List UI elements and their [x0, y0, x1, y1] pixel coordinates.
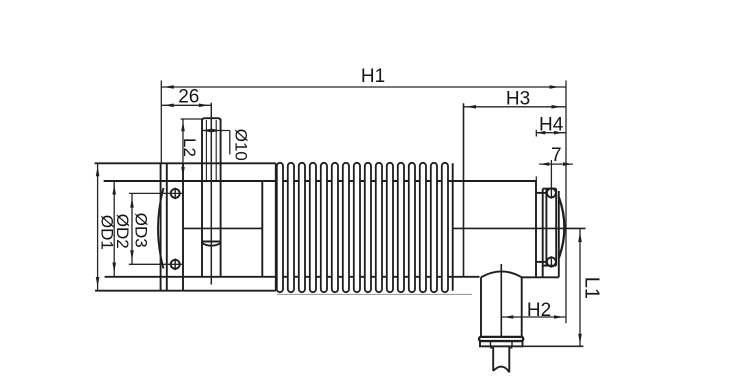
right cap inner rim line	[545, 189, 547, 266]
right body joint line / H3 left extension	[463, 103, 465, 277]
ØD3 arrows	[130, 198, 134, 208]
H1/7/H4/H2 shared right extension line	[565, 81, 567, 324]
left body step joint line	[261, 181, 263, 277]
7 left extension (screw plane)	[550, 160, 552, 189]
H2 dimension line	[501, 316, 566, 318]
gland nut upper ring	[479, 337, 523, 341]
cable tube centerline	[500, 264, 502, 337]
arrowheads	[96, 85, 582, 344]
flange inner rim line	[166, 163, 168, 290]
outer guard tube bottom silhouette / ØD1 bottom extension	[95, 290, 276, 292]
L2 top extension (stud top)	[181, 118, 203, 120]
bolt centerline / 26 right extension	[210, 103, 212, 285]
threaded stud left edge	[201, 119, 203, 277]
device centerline right segment / L1 top extension	[453, 227, 586, 229]
outer guard tube right end edge	[275, 163, 277, 290]
H3 arrows	[466, 105, 476, 109]
body D2 top line / ØD2 top extension	[104, 180, 536, 182]
flange right edge	[182, 163, 184, 290]
right body bottom line right of cable tube	[522, 276, 559, 278]
ØD2 arrows	[112, 185, 116, 195]
H3 dimension line	[464, 106, 567, 108]
svg-text:H3: H3	[506, 89, 530, 110]
H1 left extension (flange left edge extended up)	[160, 81, 162, 164]
cap screw stub upper	[536, 192, 547, 194]
H4 dimension line	[536, 132, 566, 134]
flange disc silhouette arc	[158, 188, 164, 269]
right cap top edge	[543, 188, 557, 190]
svg-text:7: 7	[551, 145, 562, 166]
cap screw S4 (lower)	[547, 257, 556, 266]
7 arrows	[540, 162, 549, 166]
Ø10 dimension line and leader	[202, 130, 230, 132]
L1 arrows	[578, 232, 582, 242]
cable right edge	[508, 346, 510, 372]
gland nut facet lines	[490, 341, 492, 346]
svg-text:Ø10: Ø10	[232, 129, 251, 161]
right cap right edge	[555, 189, 557, 266]
H1 arrows	[164, 85, 174, 89]
cap screw stub lower	[536, 261, 547, 263]
stud thread root lines	[205, 120, 207, 181]
gland nut lower ring	[480, 341, 523, 346]
threaded stud right edge	[220, 119, 222, 277]
device centerline left segment	[183, 227, 262, 229]
H4 left extension stub (upper)	[535, 130, 537, 137]
svg-text:H1: H1	[361, 66, 385, 87]
right body right edge	[535, 181, 537, 277]
cable break end	[493, 367, 509, 373]
svg-text:L1: L1	[580, 277, 602, 299]
ØD2 dimension line	[113, 181, 115, 277]
7 dimension line	[539, 163, 573, 165]
cable left edge	[492, 346, 494, 371]
faint ghost line under bellows	[277, 293, 472, 295]
flange screw S2 (lower)	[171, 260, 180, 269]
Ø10 arrows (inside, pointing outward)	[202, 129, 211, 132]
right cap dome arc	[559, 197, 565, 258]
L2 arrows	[181, 121, 185, 131]
right cap dome base edge	[558, 191, 560, 277]
L1 bottom extension / nut bottom line	[479, 345, 584, 347]
svg-text:ØD2: ØD2	[113, 214, 132, 249]
H4 left extension stub (lower, above body corner)	[535, 177, 537, 182]
flange left edge	[160, 163, 162, 290]
cable tube left edge	[480, 277, 482, 336]
26 arrows	[164, 104, 174, 108]
stud collar groove	[202, 242, 221, 246]
outer guard tube top silhouette / ØD1 top extension	[95, 162, 276, 164]
ØD1 dimension line	[97, 163, 99, 290]
ØD3 dimension line	[131, 193, 133, 264]
ØD1 arrows	[96, 166, 100, 176]
H4 arrows (inside, pointing outward)	[536, 131, 545, 135]
svg-text:26: 26	[178, 86, 199, 107]
H2 arrows	[504, 315, 514, 319]
svg-text:H2: H2	[527, 300, 551, 321]
ØD3 top extension	[129, 192, 183, 194]
ØD3 bottom extension	[129, 263, 183, 265]
right cap left edge	[542, 189, 544, 278]
dimension labels	[98, 66, 603, 321]
right cap bottom edge	[543, 265, 557, 267]
svg-text:H4: H4	[539, 114, 564, 135]
bellows capsules	[277, 163, 448, 292]
body D2 bottom line / ØD2 bottom extension	[105, 276, 480, 278]
stud top cap	[202, 118, 221, 121]
cable tube right edge	[521, 277, 523, 336]
L1 dimension line	[579, 228, 581, 346]
L2 dimension line on flange right edge	[182, 119, 184, 163]
svg-text:ØD3: ØD3	[132, 213, 151, 248]
26 dimension line	[161, 104, 211, 106]
H1 dimension line	[161, 86, 566, 88]
cable tube saddle arc	[481, 271, 522, 277]
svg-text:L2: L2	[180, 138, 199, 157]
flange screw S1 (upper)	[171, 189, 180, 198]
nut bottom corner stubs	[490, 346, 492, 348]
cap screw S3 (upper)	[547, 188, 556, 197]
bellows right end collar line	[452, 163, 454, 290]
